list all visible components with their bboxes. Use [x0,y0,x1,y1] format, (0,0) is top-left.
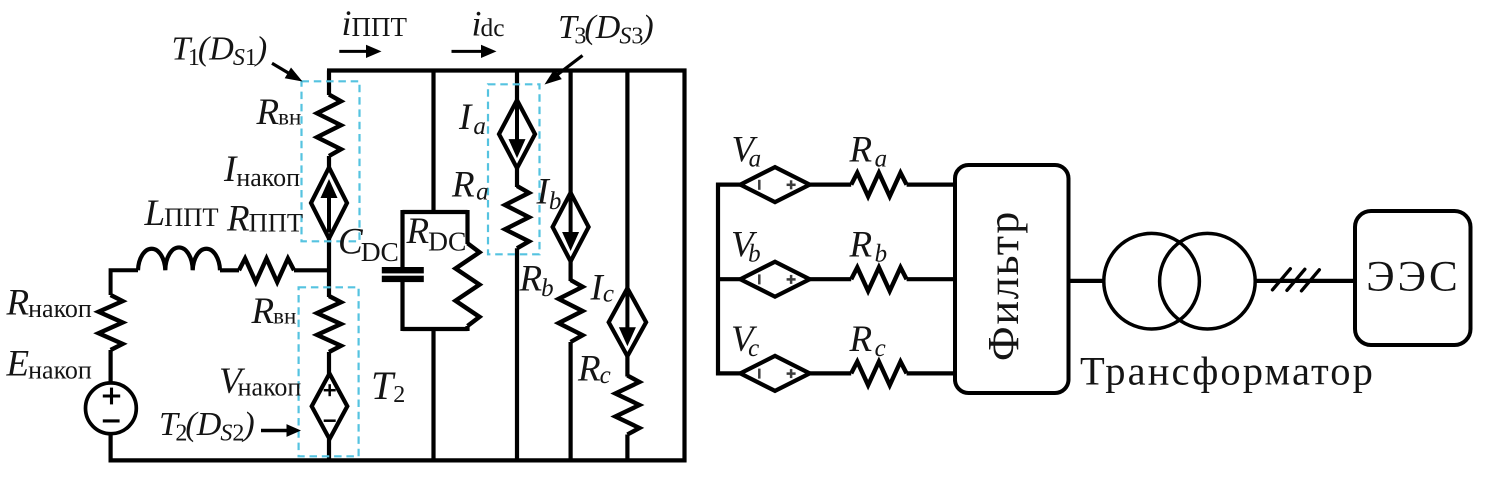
wire I_nakop to node / node to R_vn2 [327,239,331,298]
svg-text:Трансформатор: Трансформатор [1080,349,1375,394]
source V_c diamond [740,356,809,391]
wire R_vn1 to I_nakop [327,156,331,169]
wire R_PPT to node [294,268,331,272]
resistor R_a [851,173,906,197]
V_a minus bar [758,180,761,190]
resistor R_nakop [99,295,123,350]
capacitor C_DC plates [382,267,424,273]
wire V_a to R_a [810,183,852,187]
wire E_nakop to bottom bus [108,434,112,463]
wire I_b to R_b [568,261,572,281]
R_DC branch lower segment [465,326,469,331]
arrow T1 annotation [272,63,293,76]
V_b minus bar [758,274,761,284]
wire top bus to RC-DC block [431,71,435,215]
wire top bus to I_b [568,71,572,195]
wire L_PPT to R_PPT [220,268,239,272]
V_a plus sign [787,184,796,187]
wire right edge vertical [682,69,686,463]
resistor R_b [851,267,906,291]
I_a arrow down [515,105,519,141]
arrow T3 annotation [556,56,583,76]
svg-text:ЭЭС: ЭЭС [1366,254,1460,301]
wire left bus three-phase [716,183,720,376]
arrow T2 annotation [261,429,289,432]
RC-DC block bottom side [403,327,468,331]
wire V_b to R_b [810,277,852,281]
E_nakop minus sign [103,419,120,422]
C_DC branch lower segment [400,282,404,331]
dashed box T3(DS3) switch group [488,84,540,254]
arrow i_PPT [339,50,368,53]
I_nakop arrow up [327,197,331,233]
V_nakop plus sign [324,389,336,392]
C_DC branch upper segment [400,210,404,268]
wire top bus DC link [327,68,687,72]
wire R_nakop to E_nakop [108,350,112,382]
wire R_b to bottom bus [568,342,572,462]
wire top bus to I_a [515,71,519,102]
source I_b diamond [553,193,589,262]
resistor R_vn upper [317,95,341,157]
source I_nakop diamond [311,168,347,239]
wire R_c to bottom bus [625,435,629,463]
wire R_vn2 to V_nakop [327,352,331,375]
wire top bus to R_vn1 [327,71,331,96]
wire bus to V_b [716,277,741,281]
resistor R_c [851,362,906,386]
wire filter to transformer [1068,279,1105,283]
inductor L_PPT [138,247,220,270]
E_nakop plus sign [103,394,120,397]
wire bus to V_c [716,371,741,375]
wire transformer to EES [1255,279,1356,283]
svg-text:Фильтр: Фильтр [979,210,1028,361]
V_c minus bar [758,369,761,379]
V_nakop minus sign [324,419,336,422]
wire RC-DC block to bottom bus [431,329,435,462]
transformer winding 2 [1160,233,1256,329]
dashed box T2(DS2) switch group [299,287,359,456]
source I_c diamond [609,288,646,356]
dashed box T1(DS1) switch group [302,81,360,241]
resistor R_vn lower [317,296,341,352]
arrow i_dc [452,50,483,53]
RC-DC block top side [403,210,468,214]
wire R_b to filter [907,277,955,281]
resistor R_b [559,280,583,342]
wire R_c to filter [907,371,955,375]
V_c plus sign [787,372,796,375]
transformer winding 1 [1104,233,1200,329]
wire V_nakop to bottom bus [327,439,331,462]
resistor R_PPT [239,259,294,283]
wire top bus to I_c [625,71,629,290]
source V_nakop diamond [312,374,348,440]
wire V_c to R_c [810,371,852,375]
R_DC branch upper segment [465,210,469,244]
block EES box [1355,211,1471,345]
wire I_a to R_a [515,168,519,187]
wire R_a to bottom bus [515,248,519,462]
source V_a diamond [740,167,809,202]
wire I_c to R_c [625,356,629,376]
source E_nakop circle [86,383,137,434]
three-phase slash marks [1273,269,1291,290]
resistor R_DC [456,243,480,326]
I_c arrow down [625,293,629,329]
V_b plus sign [787,278,796,281]
wire bus to V_a [716,183,741,187]
wire R_a to filter [907,183,955,187]
source I_a diamond [499,100,535,168]
wire bottom bus DC link [109,458,687,462]
resistor R_c [615,376,639,435]
wire left branch corner to R_nakop [111,270,138,295]
I_b arrow down [569,198,573,234]
block Filter box [955,165,1069,393]
resistor R_a [505,186,529,248]
source V_b diamond [740,262,809,297]
